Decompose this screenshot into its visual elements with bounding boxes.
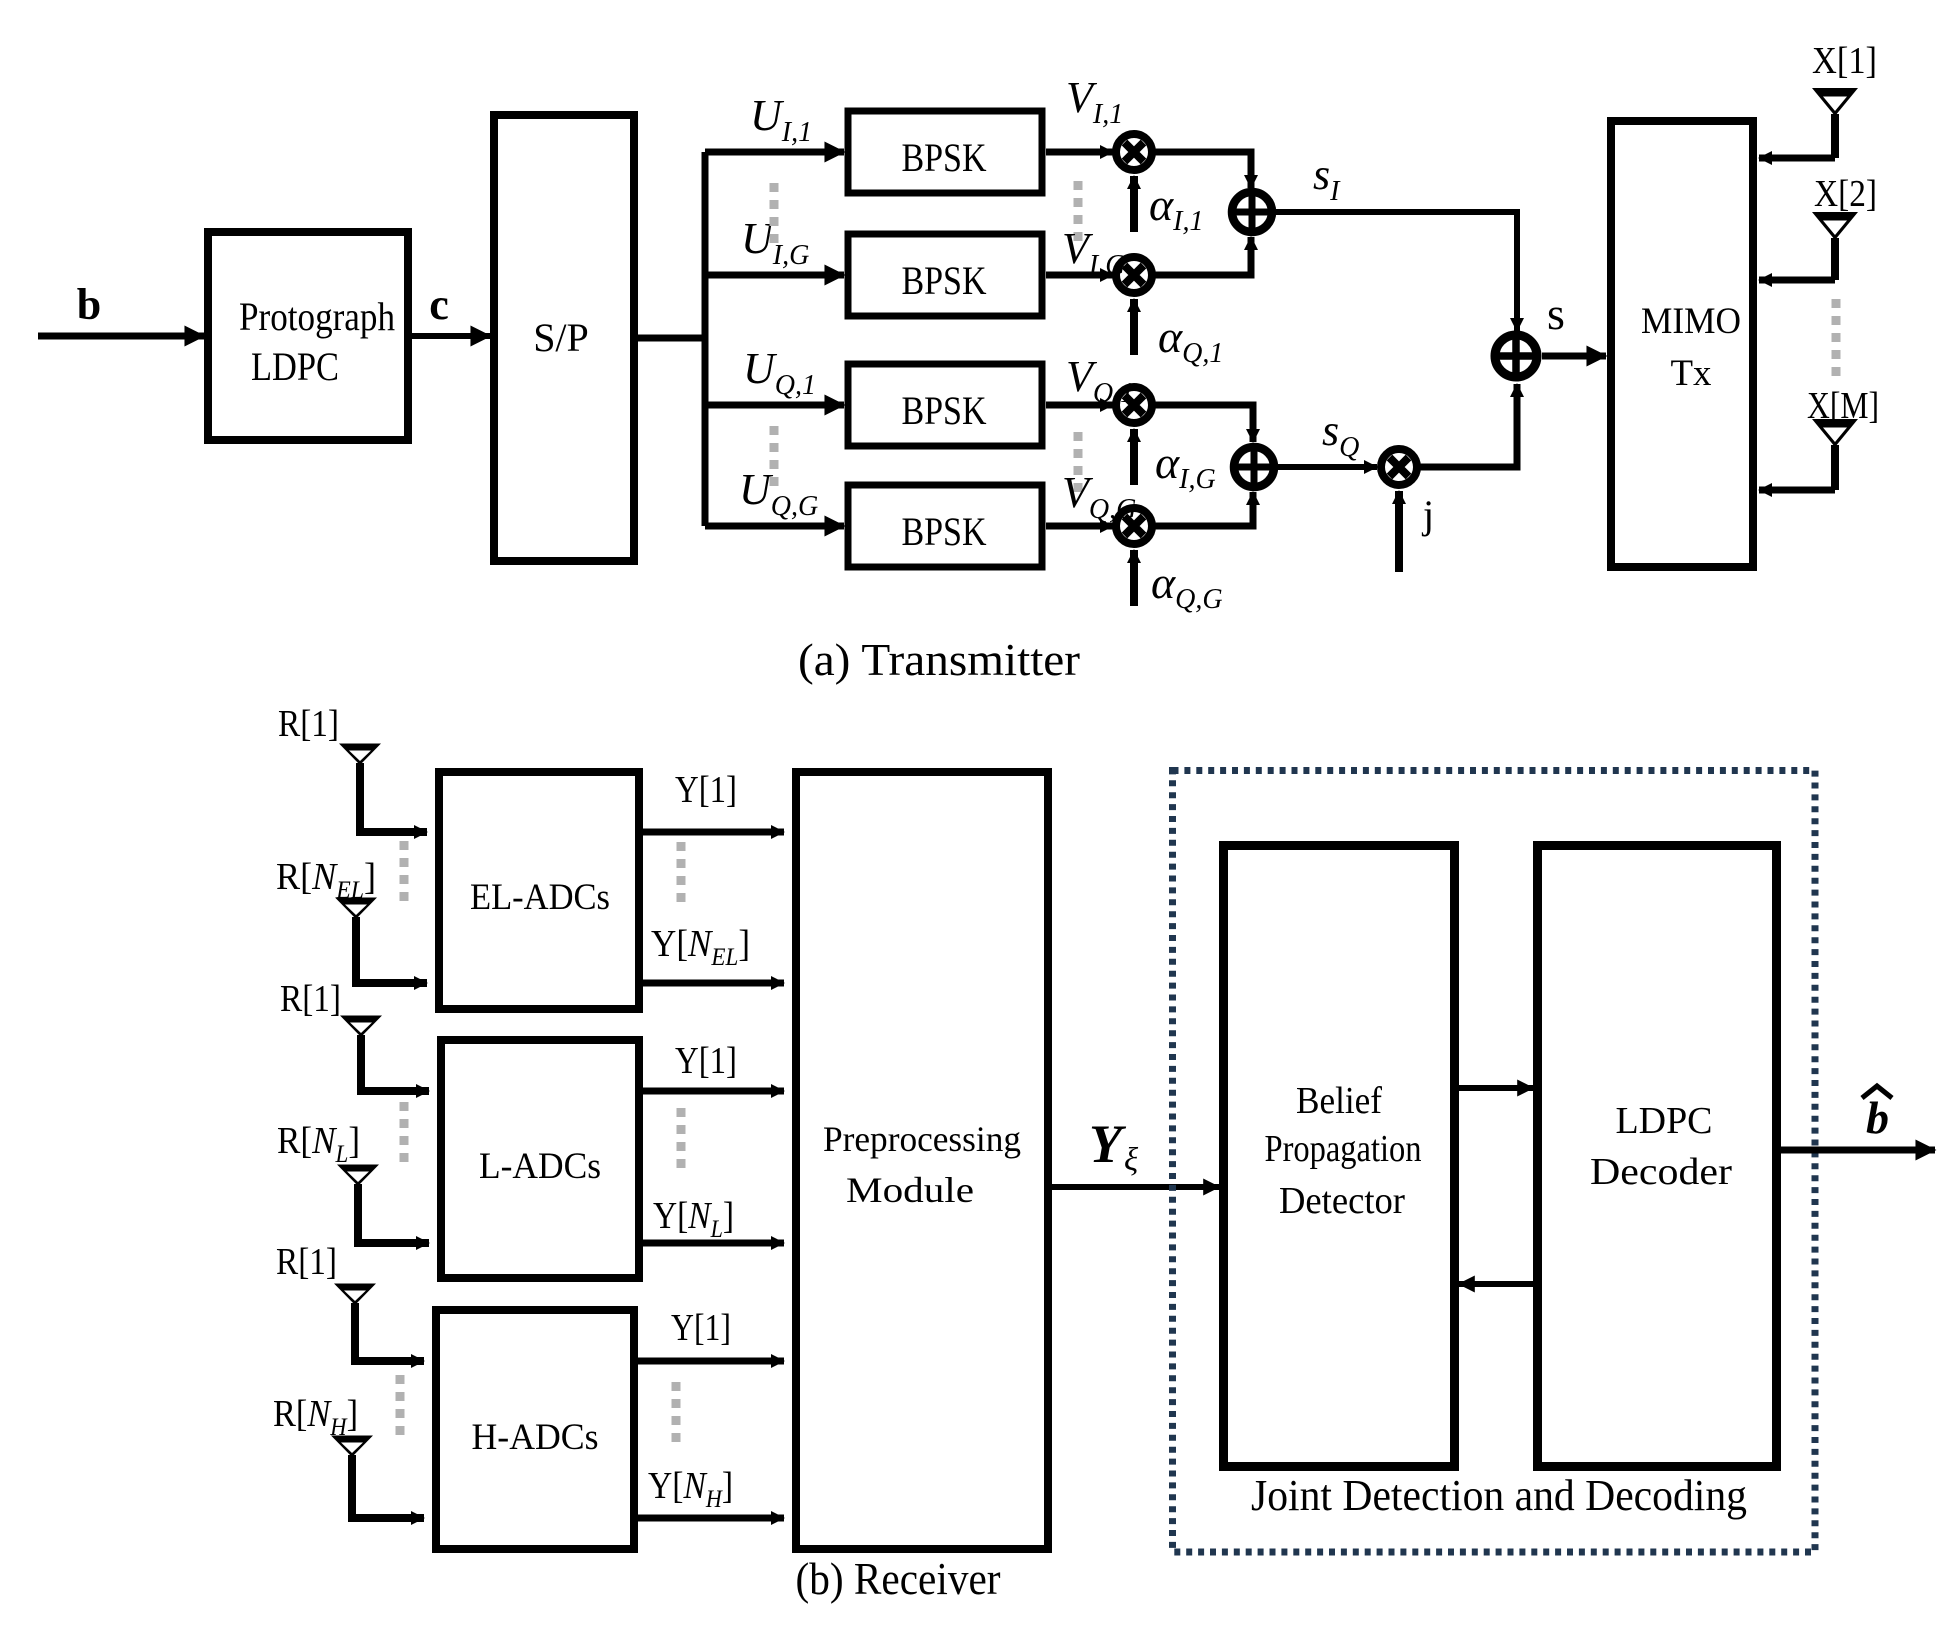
- svg-text:UQ,G: UQ,G: [739, 465, 818, 522]
- svg-text:c: c: [429, 280, 449, 329]
- svg-text:αI,1: αI,1: [1149, 179, 1203, 237]
- svg-text:VI,1: VI,1: [1066, 73, 1123, 130]
- svg-text:αQ,G: αQ,G: [1151, 557, 1223, 615]
- svg-text:b: b: [1866, 1092, 1889, 1143]
- svg-text:αI,G: αI,G: [1155, 437, 1216, 495]
- svg-text:R[1]: R[1]: [280, 978, 341, 1020]
- svg-text:b: b: [77, 280, 101, 329]
- svg-text:Y[1]: Y[1]: [675, 769, 737, 811]
- svg-text:R[1]: R[1]: [276, 1241, 337, 1283]
- svg-text:Y[NEL]: Y[NEL]: [651, 923, 750, 971]
- svg-text:Y[NL]: Y[NL]: [653, 1195, 734, 1243]
- svg-text:MIMO: MIMO: [1641, 301, 1741, 342]
- svg-text:Tx: Tx: [1671, 353, 1712, 394]
- svg-text:S/P: S/P: [533, 315, 589, 360]
- svg-text:BPSK: BPSK: [902, 258, 987, 303]
- svg-text:R[NL]: R[NL]: [277, 1120, 360, 1168]
- svg-text:Belief: Belief: [1296, 1080, 1382, 1122]
- svg-text:BPSK: BPSK: [902, 388, 987, 433]
- svg-text:Y: Y: [1089, 1114, 1127, 1174]
- svg-text:R[1]: R[1]: [278, 703, 339, 745]
- svg-text:Detector: Detector: [1279, 1180, 1405, 1222]
- svg-text:UQ,1: UQ,1: [743, 344, 816, 401]
- svg-text:Module: Module: [846, 1170, 974, 1210]
- svg-text:αQ,1: αQ,1: [1158, 311, 1223, 369]
- svg-text:(a) Transmitter: (a) Transmitter: [798, 634, 1080, 685]
- svg-text:sI: sI: [1313, 150, 1341, 207]
- svg-text:Propagation: Propagation: [1265, 1128, 1422, 1170]
- svg-text:R[NH]: R[NH]: [273, 1393, 358, 1441]
- svg-text:j: j: [1421, 492, 1434, 537]
- svg-text:sQ: sQ: [1322, 406, 1359, 463]
- svg-text:R[NEL]: R[NEL]: [276, 856, 376, 904]
- svg-text:LDPC: LDPC: [1616, 1100, 1713, 1142]
- svg-text:X[M]: X[M]: [1807, 385, 1879, 427]
- svg-text:Y[1]: Y[1]: [675, 1040, 737, 1082]
- svg-text:H-ADCs: H-ADCs: [472, 1417, 599, 1458]
- svg-text:BPSK: BPSK: [902, 509, 987, 554]
- svg-text:ξ: ξ: [1124, 1142, 1139, 1178]
- svg-text:UI,1: UI,1: [750, 91, 812, 148]
- svg-text:Joint Detection and Decoding: Joint Detection and Decoding: [1251, 1471, 1747, 1520]
- svg-text:s: s: [1547, 288, 1565, 339]
- svg-text:L-ADCs: L-ADCs: [479, 1146, 601, 1187]
- svg-text:Protograph: Protograph: [239, 294, 395, 339]
- svg-text:Y[NH]: Y[NH]: [648, 1465, 733, 1513]
- svg-text:Decoder: Decoder: [1590, 1151, 1732, 1193]
- svg-text:Y[1]: Y[1]: [671, 1307, 731, 1349]
- svg-text:BPSK: BPSK: [902, 135, 987, 180]
- svg-text:X[1]: X[1]: [1812, 40, 1877, 82]
- svg-text:X[2]: X[2]: [1814, 173, 1877, 215]
- svg-text:LDPC: LDPC: [251, 344, 339, 389]
- svg-text:(b) Receiver: (b) Receiver: [796, 1553, 1001, 1604]
- svg-text:Preprocessing: Preprocessing: [823, 1119, 1021, 1159]
- svg-text:EL-ADCs: EL-ADCs: [470, 877, 610, 918]
